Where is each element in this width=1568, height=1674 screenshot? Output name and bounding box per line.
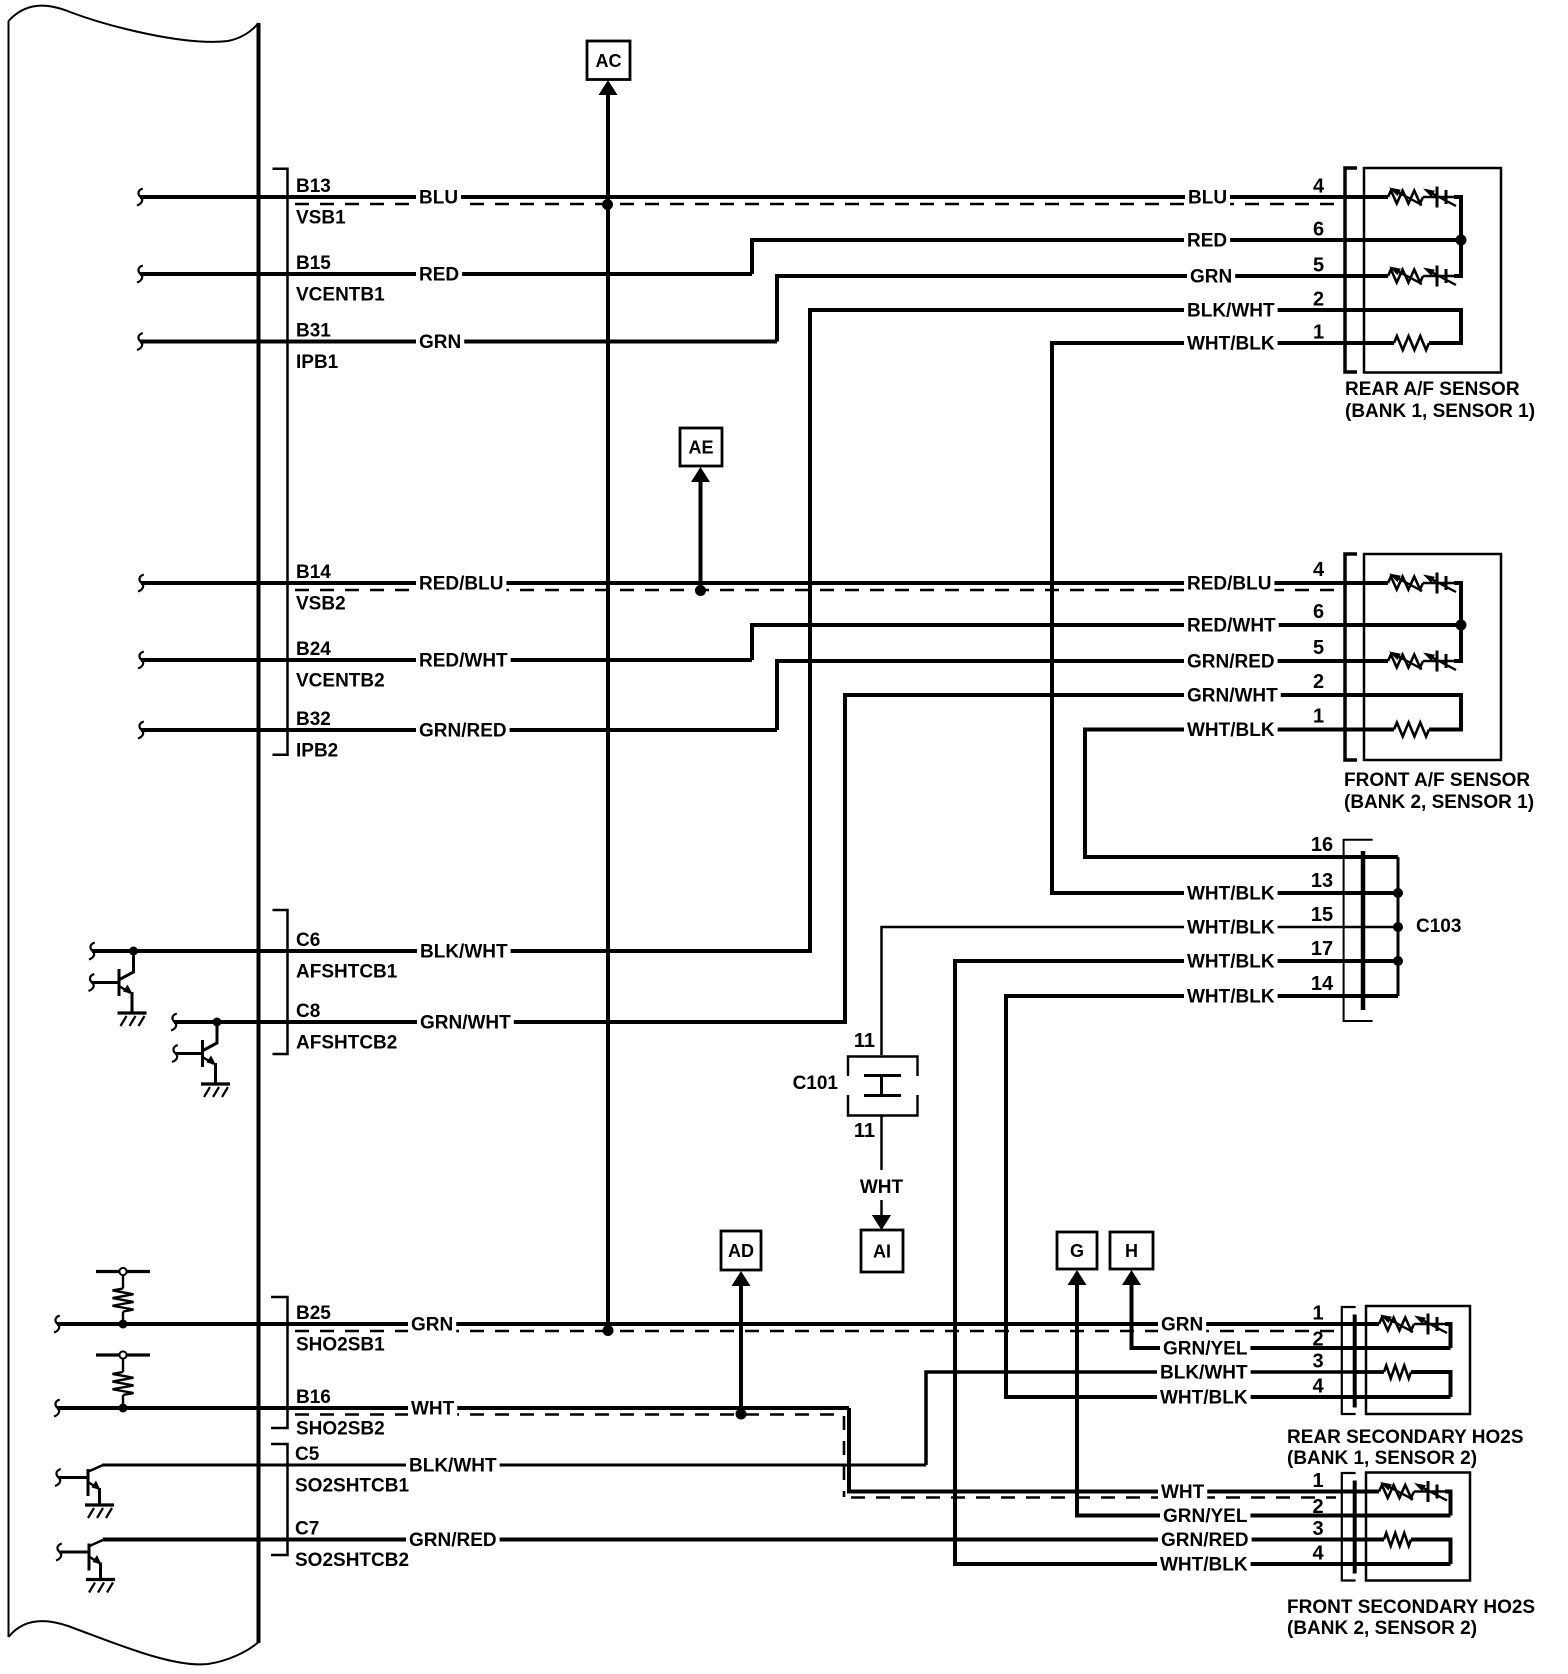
rear A/F sensor cell (pin 4) [1388, 191, 1423, 204]
rear secondary HO2S cell return [1445, 1324, 1451, 1348]
svg-text:RED/BLU: RED/BLU [419, 574, 503, 595]
wire label RED [416, 263, 462, 285]
svg-text:(BANK 1, SENSOR 1): (BANK 1, SENSOR 1) [1345, 401, 1535, 422]
front secondary HO2S box [1366, 1473, 1470, 1581]
front A/F sensor cell (pin 4) [1388, 577, 1423, 590]
ECM connector bracket C6/C8 [273, 910, 288, 1054]
svg-text:REAR SECONDARY HO2S: REAR SECONDARY HO2S [1287, 1427, 1524, 1448]
svg-text:B31: B31 [296, 321, 331, 342]
svg-text:2: 2 [1313, 671, 1324, 693]
wire C7 SO2SHTCB2 GRN/RED to front secondary HO2S pin 3 [103, 1538, 1384, 1542]
wire label WHT/BLK [1157, 1386, 1251, 1408]
svg-text:WHT/BLK: WHT/BLK [1187, 987, 1275, 1008]
svg-text:AI: AI [873, 1242, 891, 1262]
svg-text:RED/BLU: RED/BLU [1187, 574, 1271, 595]
svg-text:3: 3 [1312, 1351, 1323, 1373]
ECM powertrain control module body (torn-edge band) [9, 6, 259, 42]
svg-text:GRN: GRN [411, 1315, 453, 1336]
rear A/F sensor box [1364, 168, 1501, 373]
junction dot AC/SHO2SB1 shield [603, 1325, 614, 1336]
front secondary HO2S heater [1355, 1538, 1384, 1542]
svg-text:BLU: BLU [1188, 188, 1227, 209]
svg-text:GRN: GRN [1161, 1315, 1203, 1336]
wire label BLU [416, 186, 461, 208]
transistor SO2SHTCB2 driver (C7) [90, 1540, 105, 1547]
wire label BLK/WHT [417, 940, 511, 962]
wire C5 SO2SHTCB1 BLK/WHT (stub) [102, 1464, 926, 1467]
front A/F sensor cell (pin 5) [1388, 655, 1423, 668]
svg-text:2: 2 [1312, 1496, 1323, 1518]
svg-text:(BANK 2, SENSOR 2): (BANK 2, SENSOR 2) [1287, 1618, 1477, 1639]
wire C103 pin 17 WHT/BLK to front secondary HO2S pin 4 [955, 961, 1451, 1564]
svg-text:C103: C103 [1416, 916, 1461, 937]
ECM connector bracket B13-B32 [273, 169, 288, 755]
svg-text:GRN/RED: GRN/RED [1187, 652, 1275, 673]
wire label GRN/WHT [417, 1011, 514, 1033]
svg-text:15: 15 [1311, 904, 1333, 926]
wire label RED/BLU [1184, 572, 1274, 594]
connector bracket rear secondary HO2S [1342, 1307, 1356, 1414]
svg-text:RED/WHT: RED/WHT [1187, 616, 1276, 637]
wire C103 pin 14 WHT/BLK to rear secondary HO2S pin 4 [1006, 996, 1451, 1397]
svg-text:REAR A/F SENSOR: REAR A/F SENSOR [1345, 379, 1520, 400]
front secondary HO2S cell return [1445, 1492, 1451, 1516]
svg-text:4: 4 [1313, 176, 1325, 198]
wire WHT jog down to front secondary HO2S pin 1 [849, 1408, 1379, 1492]
wire label GRN/RED [1158, 1529, 1252, 1551]
shield (dashed) of VSB1 BLU wire [295, 203, 1334, 206]
svg-text:1: 1 [1312, 1303, 1323, 1325]
svg-text:GRN/YEL: GRN/YEL [1163, 1339, 1248, 1360]
front secondary HO2S cell (pin 1) [1379, 1485, 1414, 1498]
svg-text:WHT/BLK: WHT/BLK [1160, 1388, 1248, 1409]
svg-text:4: 4 [1313, 559, 1325, 581]
wire C101 to C103 pin 15 WHT/BLK [882, 927, 1399, 1055]
svg-text:WHT/BLK: WHT/BLK [1187, 334, 1275, 355]
ground (AFSHTCB2 emitter) [201, 1082, 230, 1085]
wire GRN riser to pin 5 [777, 276, 1388, 342]
wire B24 VCENTB2 RED/WHT (stub) [141, 658, 752, 662]
svg-text:C101: C101 [793, 1073, 839, 1094]
wire label RED/WHT [416, 649, 511, 671]
wire RED/WHT riser to pin 6 [752, 625, 1461, 660]
C103 internal bus [1397, 857, 1400, 996]
ECM connector bracket B25/B16 [271, 1297, 288, 1428]
net ref box AI [861, 1230, 903, 1272]
svg-text:(BANK 2, SENSOR 1): (BANK 2, SENSOR 1) [1344, 792, 1534, 813]
svg-text:2: 2 [1313, 289, 1324, 311]
svg-text:B14: B14 [296, 562, 331, 583]
connector C101 (in-line) [848, 1057, 918, 1077]
wire label GRN/RED [406, 1529, 500, 1551]
wire front A/F pin 1 WHT/BLK to C103 pin 16 [1085, 730, 1398, 858]
wire to net ref AE (shield drain) [699, 481, 703, 591]
wire B13 VSB1 BLU (pin B13 to rear A/F pin 4) [140, 195, 1388, 199]
svg-text:1: 1 [1312, 1470, 1323, 1492]
svg-text:IPB1: IPB1 [296, 352, 339, 373]
wire C6 AFSHTCB1 BLK/WHT to rear A/F pin 2 [92, 310, 1461, 951]
rear secondary HO2S box [1366, 1306, 1470, 1414]
junction dot C103 pin 15 [1393, 922, 1403, 932]
svg-text:SO2SHTCB2: SO2SHTCB2 [295, 1550, 409, 1571]
svg-text:WHT/BLK: WHT/BLK [1187, 952, 1275, 973]
svg-text:C8: C8 [296, 1001, 320, 1022]
wire label BLU [1185, 186, 1230, 208]
svg-text:13: 13 [1311, 870, 1333, 892]
ground (AFSHTCB1 emitter) [118, 1011, 147, 1014]
svg-text:BLK/WHT: BLK/WHT [1160, 1363, 1248, 1384]
shield (dashed) of SHO2SB2 WHT wire [295, 1413, 841, 1416]
svg-text:VSB2: VSB2 [296, 594, 346, 615]
svg-text:BLK/WHT: BLK/WHT [420, 942, 508, 963]
wire label GRN/YEL [1160, 1505, 1250, 1527]
wire label WHT/BLK [1157, 1553, 1251, 1575]
transistor AFSHTCB1 driver (C6) [129, 947, 138, 956]
junction dot C103 pin 13 [1393, 888, 1403, 898]
net ref box AE [680, 428, 722, 466]
wire to net ref AC (shield drain) [606, 93, 610, 1331]
pull-up resistor on SHO2SB2 [96, 1353, 150, 1356]
svg-text:RED/WHT: RED/WHT [419, 651, 508, 672]
svg-text:B13: B13 [296, 176, 331, 197]
svg-text:WHT/BLK: WHT/BLK [1187, 720, 1275, 741]
wire label WHT/BLK [1184, 882, 1278, 904]
wire B14 VSB2 RED/BLU (pin B14 to front A/F pin 4) [141, 581, 1388, 585]
wire label BLK/WHT [1184, 299, 1278, 321]
svg-text:5: 5 [1313, 255, 1324, 277]
svg-text:(BANK 1, SENSOR 2): (BANK 1, SENSOR 2) [1287, 1448, 1477, 1469]
wire label RED [1184, 229, 1230, 251]
svg-text:17: 17 [1311, 938, 1333, 960]
rear A/F sensor cell (pin 5) [1388, 270, 1423, 283]
svg-text:6: 6 [1313, 219, 1324, 241]
wire label WHT/BLK [1184, 916, 1278, 938]
junction dot C103 pin 17 [1393, 956, 1403, 966]
wire label GRN [1187, 265, 1235, 287]
wire B31 IPB1 GRN (stub) [140, 340, 777, 344]
wire B25 SHO2SB1 GRN to rear secondary HO2S pin 1 [57, 1322, 1379, 1326]
junction dot AE/VSB2 shield [695, 585, 706, 596]
svg-text:C7: C7 [295, 1519, 319, 1540]
svg-text:11: 11 [854, 1030, 875, 1052]
wire label WHT/BLK [1184, 332, 1278, 354]
wire H to rear secondary HO2S pin 2 GRN/YEL [1132, 1285, 1451, 1348]
svg-text:B24: B24 [296, 639, 331, 660]
wire GRN/RED riser to pin 5 [777, 661, 1388, 730]
svg-text:11: 11 [854, 1120, 875, 1142]
svg-text:FRONT A/F SENSOR: FRONT A/F SENSOR [1344, 770, 1530, 791]
wire label WHT [408, 1397, 457, 1419]
svg-text:GRN/RED: GRN/RED [419, 721, 507, 742]
svg-text:GRN: GRN [1190, 267, 1232, 288]
wire label BLK/WHT [406, 1454, 500, 1476]
svg-text:AD: AD [728, 1241, 754, 1261]
net ref box H [1110, 1232, 1153, 1269]
svg-text:RED: RED [1187, 231, 1227, 252]
ECM connector bracket C5/C7 [271, 1444, 288, 1555]
wire B32 IPB2 GRN/RED (stub) [141, 728, 777, 732]
front A/F sensor cell common wire [1454, 583, 1461, 661]
rear secondary HO2S heater [1355, 1370, 1384, 1374]
wire label GRN [416, 331, 464, 353]
svg-text:SHO2SB2: SHO2SB2 [296, 1419, 385, 1440]
wire B16 SHO2SB2 WHT (stub) [57, 1406, 849, 1410]
svg-text:WHT/BLK: WHT/BLK [1160, 1555, 1248, 1576]
connector bracket front secondary HO2S [1342, 1473, 1356, 1581]
transistor AFSHTCB2 driver (C8) [213, 1018, 222, 1027]
svg-text:14: 14 [1311, 973, 1334, 995]
wire C8 AFSHTCB2 GRN/WHT to front A/F pin 2 [174, 695, 1461, 1022]
junction dot AD/SHO2SB2 shield [736, 1409, 747, 1420]
wire BLK/WHT riser to rear secondary HO2S pin 3 [926, 1372, 1384, 1465]
net ref box AC [587, 41, 630, 80]
wire label BLK/WHT [1157, 1361, 1251, 1383]
connector bracket front A/F sensor [1345, 554, 1357, 760]
svg-text:SHO2SB1: SHO2SB1 [296, 1335, 385, 1356]
junction dot AC/VSB1 shield [602, 199, 613, 210]
svg-text:GRN/WHT: GRN/WHT [1187, 686, 1278, 707]
connector C103 bracket [1344, 840, 1373, 1021]
rear A/F sensor cell common wire [1454, 197, 1461, 276]
wire label GRN [408, 1313, 456, 1335]
wire to net ref AD (shield drain) [739, 1285, 743, 1414]
svg-text:VCENTB2: VCENTB2 [296, 671, 385, 692]
svg-text:4: 4 [1312, 1376, 1324, 1398]
svg-text:BLK/WHT: BLK/WHT [409, 1456, 497, 1477]
svg-text:IPB2: IPB2 [296, 741, 338, 762]
svg-text:6: 6 [1313, 601, 1324, 623]
shield (dashed) of SHO2SB1 GRN wire [295, 1330, 1336, 1333]
svg-text:B16: B16 [296, 1387, 331, 1408]
net ref box G [1057, 1232, 1097, 1269]
svg-text:SO2SHTCB1: SO2SHTCB1 [295, 1476, 409, 1497]
wire label WHT/BLK [1184, 950, 1278, 972]
wire label GRN/WHT [1184, 684, 1281, 706]
connector bracket rear A/F sensor [1345, 168, 1357, 372]
svg-text:WHT: WHT [860, 1177, 904, 1198]
ground (SO2SHTCB2 emitter) [86, 1578, 115, 1581]
svg-text:G: G [1070, 1241, 1084, 1261]
wire label RED/BLU [416, 572, 506, 594]
ground (SO2SHTCB1 emitter) [85, 1503, 114, 1506]
wire label RED/WHT [1184, 614, 1279, 636]
rear A/F heater circuit [1364, 310, 1461, 343]
svg-text:C5: C5 [295, 1444, 320, 1465]
wire label GRN/YEL [1160, 1337, 1250, 1359]
svg-text:AFSHTCB1: AFSHTCB1 [296, 962, 398, 983]
svg-text:B15: B15 [296, 253, 331, 274]
svg-text:BLK/WHT: BLK/WHT [1187, 301, 1275, 322]
svg-text:BLU: BLU [419, 188, 458, 209]
wire label GRN [1158, 1313, 1206, 1335]
svg-text:RED: RED [419, 265, 459, 286]
svg-text:B25: B25 [296, 1303, 331, 1324]
wire label GRN/RED [416, 719, 510, 741]
junction dot rear A/F pin 6 [1456, 235, 1467, 246]
wire label GRN/RED [1184, 650, 1278, 672]
svg-text:3: 3 [1312, 1518, 1323, 1540]
junction dot front A/F pin 6 [1456, 620, 1467, 631]
pull-up resistor on SHO2SB1 [96, 1270, 150, 1273]
svg-text:WHT: WHT [1161, 1482, 1205, 1503]
svg-text:5: 5 [1313, 637, 1324, 659]
wire rear A/F pin 1 WHT/BLK to C103 pin 13 [1052, 343, 1398, 893]
net ref box AD [721, 1231, 761, 1270]
svg-text:16: 16 [1311, 834, 1333, 856]
svg-text:FRONT SECONDARY HO2S: FRONT SECONDARY HO2S [1287, 1597, 1535, 1618]
wire B15 VCENTB1 RED (stub) [140, 272, 752, 276]
front A/F heater circuit [1364, 695, 1461, 730]
svg-text:1: 1 [1313, 706, 1324, 728]
wire label WHT [1158, 1481, 1207, 1503]
svg-text:GRN/RED: GRN/RED [409, 1530, 497, 1551]
front A/F sensor box [1364, 554, 1501, 760]
wire G to front secondary HO2S pin 2 GRN/YEL [1077, 1285, 1451, 1516]
wire label WHT/BLK [1184, 985, 1278, 1007]
svg-text:VSB1: VSB1 [296, 208, 346, 229]
svg-text:GRN: GRN [419, 332, 461, 353]
svg-text:2: 2 [1312, 1329, 1323, 1351]
svg-text:H: H [1125, 1241, 1138, 1261]
svg-text:1: 1 [1313, 322, 1324, 344]
shield (dashed) of VSB2 RED/BLU wire [295, 589, 1334, 592]
wire label WHT/BLK [1184, 719, 1278, 741]
svg-text:AFSHTCB2: AFSHTCB2 [296, 1033, 397, 1054]
svg-text:4: 4 [1312, 1543, 1324, 1565]
transistor SO2SHTCB1 driver (C5) [89, 1465, 104, 1472]
svg-text:VCENTB1: VCENTB1 [296, 285, 385, 306]
svg-text:C6: C6 [296, 930, 320, 951]
svg-text:WHT: WHT [411, 1399, 455, 1420]
rear secondary HO2S cell (pin 1) [1379, 1318, 1414, 1331]
svg-text:GRN/WHT: GRN/WHT [420, 1013, 511, 1034]
svg-text:WHT/BLK: WHT/BLK [1187, 918, 1275, 939]
svg-text:AE: AE [688, 438, 713, 458]
svg-text:GRN/RED: GRN/RED [1161, 1530, 1249, 1551]
svg-text:B32: B32 [296, 709, 331, 730]
svg-text:WHT/BLK: WHT/BLK [1187, 884, 1275, 905]
wire C101 pin 11 WHT to net ref AI [880, 1116, 883, 1216]
wire RED riser to pin 6 [752, 240, 1461, 274]
svg-text:GRN/YEL: GRN/YEL [1163, 1506, 1248, 1527]
svg-text:AC: AC [596, 51, 622, 71]
